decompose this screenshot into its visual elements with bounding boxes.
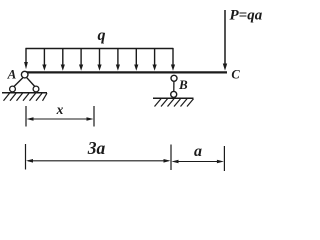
load arrow 9 (171, 48, 175, 71)
svg-text:P=qa: P=qa (230, 7, 263, 23)
beam A-C (25, 71, 227, 73)
support A left base roller circle (10, 86, 16, 92)
load arrow 7 (134, 48, 138, 71)
svg-text:x: x (56, 102, 64, 117)
svg-text:C: C (231, 68, 240, 82)
dimension 3a / a: right tick at C (223, 146, 225, 171)
label 3a (87, 138, 106, 158)
support B ground line (153, 97, 194, 99)
dimension x: left tick (25, 106, 27, 127)
svg-text:a: a (194, 143, 202, 160)
support A left leg (14, 78, 23, 87)
distributed load top line q (26, 48, 174, 50)
support A ground hatching (4, 93, 48, 101)
load arrow 1 (24, 48, 28, 69)
label P=qa (230, 7, 263, 23)
dimension a line with outward arrows (172, 160, 224, 164)
label C (231, 68, 240, 82)
load arrow 3 (61, 48, 65, 71)
load arrow 8 (153, 48, 157, 71)
svg-text:q: q (98, 27, 106, 44)
label a (194, 143, 202, 160)
support A pin: apex hinge circle (21, 71, 28, 78)
label q (98, 27, 106, 44)
load arrow 5 (97, 48, 101, 71)
dimension x: right tick (93, 106, 95, 127)
label B (178, 77, 188, 92)
svg-text:A: A (7, 67, 17, 82)
dimension 3a / a: left tick (25, 144, 27, 170)
load arrow 6 (116, 48, 120, 71)
dimension 3a / a: middle tick at B (170, 145, 172, 171)
support B ground hatching (155, 99, 194, 107)
load arrow 2 (42, 48, 46, 71)
dimension x: line with outward arrows (27, 117, 94, 121)
support B roller: top circle (171, 75, 177, 81)
support B bottom circle (171, 91, 177, 97)
label x (56, 102, 64, 117)
svg-text:B: B (178, 77, 188, 92)
support A ground line (2, 92, 47, 94)
support A right base roller circle (33, 86, 39, 92)
load arrow 4 (79, 48, 83, 71)
support B link line (173, 81, 175, 91)
label A (7, 67, 17, 82)
svg-text:3a: 3a (87, 138, 106, 158)
dimension 3a line with outward arrows (26, 159, 171, 163)
support A right leg (27, 78, 35, 87)
force P arrow at C (223, 10, 227, 71)
